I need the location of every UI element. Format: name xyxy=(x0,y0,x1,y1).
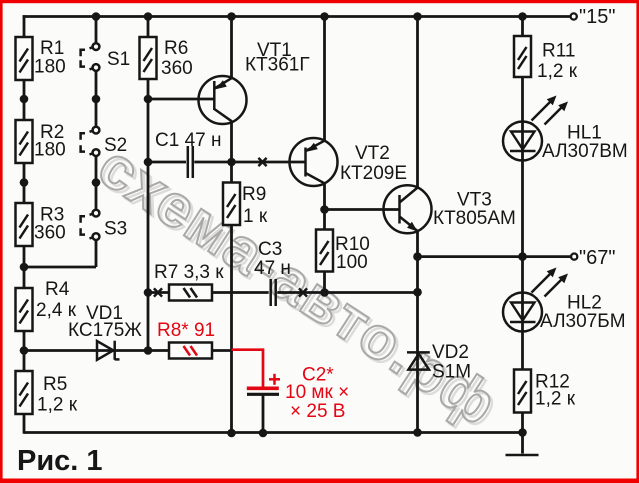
switch S3 xyxy=(81,210,128,240)
wire S3 bottom xyxy=(95,240,98,267)
svg-text:"15": "15" xyxy=(579,6,615,28)
svg-text:180: 180 xyxy=(34,140,66,161)
wire S2 top xyxy=(95,99,98,127)
LED HL2 АЛ307БМ xyxy=(503,268,626,333)
node dots bottom rail xyxy=(227,429,267,438)
svg-text:КТ805АМ: КТ805АМ xyxy=(433,208,516,229)
svg-text:S1M: S1M xyxy=(432,362,471,383)
svg-text:1,2 к: 1,2 к xyxy=(37,395,78,416)
node dots left column xyxy=(20,95,29,355)
LED HL1 АЛ307ВМ xyxy=(503,96,628,163)
resistor R7 xyxy=(154,262,224,301)
ground xyxy=(506,433,539,456)
capacitor C2 electrolytic xyxy=(247,365,349,423)
diode VD2 S1M xyxy=(407,342,471,383)
node dots R6 column xyxy=(144,95,153,355)
svg-text:R11: R11 xyxy=(542,41,575,62)
resistor R8 xyxy=(157,320,215,359)
svg-text:180: 180 xyxy=(34,57,66,78)
resistor R2 xyxy=(16,120,66,163)
svg-text:R5: R5 xyxy=(43,374,67,395)
node dots top rail xyxy=(92,12,527,21)
svg-text:C1 47 н: C1 47 н xyxy=(155,130,221,151)
x-mark R7 row left xyxy=(154,288,162,296)
svg-text:АЛ307БМ: АЛ307БМ xyxy=(540,311,626,332)
svg-text:VD2: VD2 xyxy=(432,342,469,363)
wire S2 bottom xyxy=(95,156,98,183)
svg-text:C3: C3 xyxy=(258,239,282,260)
svg-text:КТ361Г: КТ361Г xyxy=(245,55,310,76)
wire VT1 base xyxy=(148,98,215,101)
resistor R4 xyxy=(16,279,77,331)
wire VT2 collector column xyxy=(323,183,326,293)
wire VD1 R8 row xyxy=(24,349,233,352)
svg-text:R6: R6 xyxy=(164,38,188,59)
terminal 15 xyxy=(571,6,616,28)
resistor R1 xyxy=(16,37,66,80)
resistor R10 xyxy=(316,230,370,274)
wire S1 bottom xyxy=(95,71,98,100)
node dot C1-R9 xyxy=(227,158,236,167)
wire VT3 base row xyxy=(325,208,400,211)
svg-text:360: 360 xyxy=(161,58,193,79)
svg-text:Рис. 1: Рис. 1 xyxy=(17,445,103,477)
transistor VT1 КТ361Г xyxy=(199,40,310,124)
svg-text:КС175Ж: КС175Ж xyxy=(68,320,142,341)
svg-text:10 мк ×: 10 мк × xyxy=(285,382,349,403)
wire R7 row left xyxy=(148,291,269,294)
wire bottom rail xyxy=(24,431,523,434)
svg-text:S1: S1 xyxy=(107,49,130,70)
wire R6 column xyxy=(147,17,150,351)
svg-text:1,2 к: 1,2 к xyxy=(537,61,578,82)
wire S3 to R3-R4 node xyxy=(24,266,96,269)
wire VT3 emitter column / VD2 column xyxy=(416,231,419,433)
transistor VT3 КТ805АМ xyxy=(384,185,516,233)
svg-text:× 25 В: × 25 В xyxy=(290,401,345,422)
wire VT3 collector column xyxy=(416,17,419,188)
wire HL column xyxy=(521,17,524,433)
svg-text:КТ209Е: КТ209Е xyxy=(340,163,407,184)
resistor R3 xyxy=(16,203,66,246)
wire C2 to bottom rail xyxy=(262,396,265,434)
svg-text:S3: S3 xyxy=(104,219,127,240)
wire left column xyxy=(23,15,26,434)
switch S2 xyxy=(81,127,128,156)
svg-text:R9: R9 xyxy=(242,184,266,205)
svg-text:R8* 91: R8* 91 xyxy=(157,320,215,341)
wire R7 row right xyxy=(277,291,417,294)
capacitor C1 xyxy=(155,130,221,178)
svg-text:100: 100 xyxy=(336,252,368,273)
wire C1 row right to VT2 base xyxy=(194,161,305,164)
label Рис. 1 xyxy=(17,445,103,477)
svg-text:АЛ307ВМ: АЛ307ВМ xyxy=(542,141,628,162)
x-mark C1 row xyxy=(258,158,266,166)
wire VT1 collector / R9 column xyxy=(230,122,233,434)
svg-text:R4: R4 xyxy=(45,279,70,300)
svg-text:2,4 к: 2,4 к xyxy=(36,300,77,321)
node dots VT3 column xyxy=(413,252,422,437)
svg-text:VT2: VT2 xyxy=(355,143,390,164)
wire C1 row left xyxy=(148,161,186,164)
node dots HL column xyxy=(518,252,527,437)
svg-text:360: 360 xyxy=(34,223,66,244)
node dots VT2 collector and R10 xyxy=(320,205,329,297)
wire VT1 emitter column xyxy=(230,17,233,79)
svg-text:1,2 к: 1,2 к xyxy=(535,389,576,410)
svg-text:"67": "67" xyxy=(579,247,615,269)
terminal 67 xyxy=(571,247,615,269)
resistor R12 xyxy=(514,370,576,413)
wire VT2 emitter column xyxy=(323,17,326,142)
resistor R11 xyxy=(514,36,578,82)
switch S1 xyxy=(81,43,131,71)
resistor R5 xyxy=(16,371,78,416)
x-mark C3 row right xyxy=(299,288,307,296)
resistor R9 xyxy=(223,183,268,228)
wire red to C2 xyxy=(232,350,264,387)
svg-text:R7 3,3 к: R7 3,3 к xyxy=(154,262,224,283)
node dots switch column xyxy=(92,95,101,187)
svg-text:47 н: 47 н xyxy=(254,258,291,279)
wire top rail +15V xyxy=(23,15,571,18)
wire S1 top xyxy=(95,17,98,44)
resistor R6 xyxy=(140,37,193,79)
watermark схема-авто.рф xyxy=(87,132,512,442)
capacitor C3 xyxy=(254,239,291,306)
wire 67 row xyxy=(418,255,571,258)
transistor VT2 КТ209Е xyxy=(290,138,408,186)
svg-text:S2: S2 xyxy=(104,135,127,156)
wire S3 top xyxy=(95,183,98,211)
diode VD1 КС175Ж zener xyxy=(68,303,142,360)
svg-text:1 к: 1 к xyxy=(243,206,268,227)
